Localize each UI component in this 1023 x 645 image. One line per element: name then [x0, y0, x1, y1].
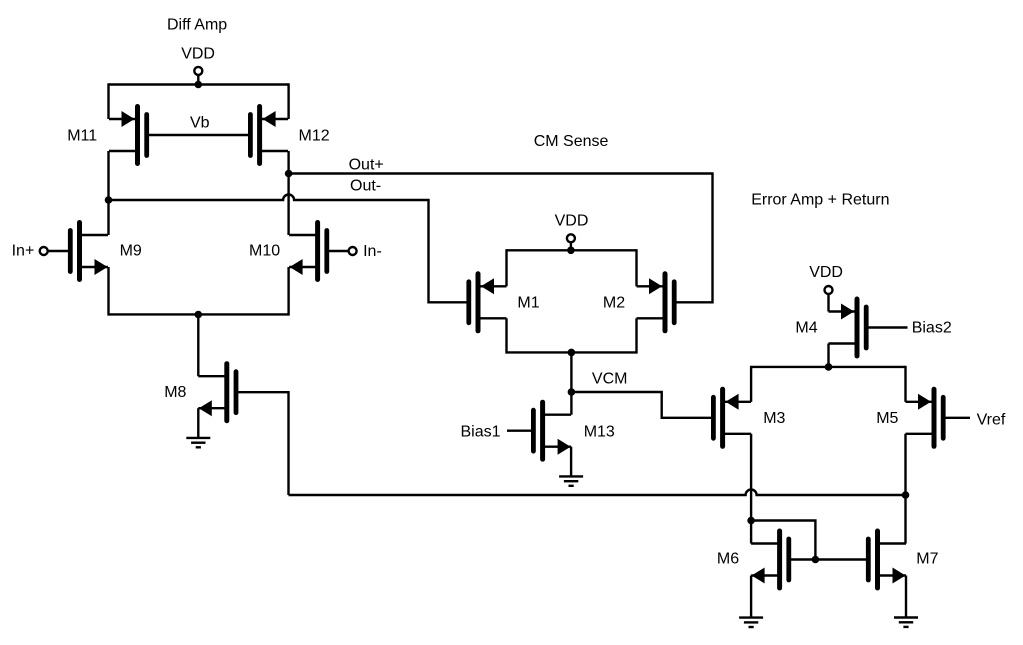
- wire bottom rail to M13 drain: [570, 352, 572, 414]
- ground M7 source: [894, 618, 918, 627]
- wire M6-M7 gate line: [789, 558, 869, 560]
- wire CM sense bottom rail: [507, 351, 637, 353]
- svg-text:M9: M9: [120, 242, 142, 259]
- svg-text:Vref: Vref: [977, 412, 1006, 429]
- svg-text:M1: M1: [517, 295, 539, 312]
- wire VDD to M4 source: [827, 294, 829, 312]
- svg-text:M5: M5: [876, 410, 898, 427]
- wire M6 drain down: [750, 519, 752, 543]
- wire VDD rail CM sense: [507, 249, 637, 251]
- junction CM VDD rail: [567, 247, 575, 255]
- svg-text:M8: M8: [164, 384, 186, 401]
- junction Out+ node: [285, 170, 293, 178]
- svg-text:M11: M11: [67, 127, 97, 144]
- PMOS transistor M4: [829, 299, 867, 356]
- node Out- wire vertical to M1 gate: [429, 199, 469, 302]
- ground M13 source: [559, 476, 583, 485]
- wire In- to M10 gate: [327, 250, 349, 252]
- wire M4 drain down: [827, 344, 829, 367]
- svg-text:M3: M3: [763, 410, 785, 427]
- NMOS transistor M13: [533, 402, 571, 459]
- PMOS transistor M11: [109, 107, 147, 164]
- junction VDD rail: [195, 81, 203, 89]
- wire VDD stub diff amp: [197, 75, 199, 85]
- wire M11 drain to M9 drain: [107, 151, 109, 235]
- PMOS transistor M12: [250, 107, 288, 164]
- wire M8 source down: [197, 408, 199, 438]
- wire M4 gate to Bias2: [866, 326, 907, 328]
- junction M3-M6 drain node: [747, 517, 755, 525]
- svg-text:M13: M13: [584, 423, 615, 440]
- wire VDD stub CM sense: [570, 242, 572, 250]
- junction gate line tap: [812, 556, 820, 564]
- svg-text:Bias1: Bias1: [461, 423, 501, 440]
- wire Bias1 to M13 gate: [507, 430, 534, 432]
- wire VCM to M3 gate: [571, 392, 713, 418]
- svg-text:VDD: VDD: [181, 45, 215, 62]
- wire VDD rail to M12 source: [287, 83, 289, 119]
- junction M4 drain node: [825, 363, 833, 371]
- PMOS transistor M5: [906, 389, 944, 446]
- PMOS transistor M3: [713, 389, 751, 446]
- node Out+ wire: [289, 174, 713, 303]
- wire M3 drain down through hop: [750, 434, 752, 521]
- svg-text:Bias2: Bias2: [912, 320, 952, 337]
- wire rail to M2 source: [635, 249, 637, 286]
- PMOS transistor M1: [469, 274, 507, 331]
- wire M13 source down: [570, 447, 572, 477]
- svg-text:M7: M7: [916, 551, 938, 568]
- wire In+ to M9 gate: [47, 250, 70, 252]
- junction feedback line right end: [902, 491, 910, 499]
- NMOS transistor M8: [198, 364, 236, 421]
- svg-text:Error Amp + Return: Error Amp + Return: [751, 191, 889, 208]
- svg-text:VDD: VDD: [809, 264, 843, 281]
- terminal VDD diff amp: [194, 67, 202, 75]
- wire M1 drain down: [505, 318, 507, 353]
- svg-text:Diff Amp: Diff Amp: [167, 17, 227, 34]
- svg-text:M10: M10: [249, 242, 280, 259]
- junction CM bottom rail: [568, 349, 576, 357]
- NMOS transistor M9: [70, 223, 108, 280]
- wire M6 source down: [750, 576, 752, 618]
- wire M2 drain down: [635, 318, 637, 353]
- svg-text:M12: M12: [299, 127, 330, 144]
- wire tail node to M8 drain: [197, 315, 199, 377]
- wire M12 drain to M10 drain: [287, 151, 289, 235]
- junction tail node: [195, 311, 203, 319]
- feedback return line with hop: [289, 490, 906, 496]
- terminal In-: [349, 247, 357, 255]
- ground M6 source: [739, 618, 763, 627]
- svg-text:M2: M2: [603, 295, 625, 312]
- wire rail to M5 source: [904, 366, 906, 402]
- svg-text:CM Sense: CM Sense: [534, 133, 609, 150]
- wire M3/M5 source rail: [751, 366, 905, 368]
- svg-text:Out+: Out+: [349, 156, 384, 173]
- wire M6 drain node to gates: [751, 521, 815, 560]
- svg-text:VCM: VCM: [592, 370, 628, 387]
- wire rail to M3 source: [750, 366, 752, 402]
- wire M7 source down: [905, 576, 907, 618]
- svg-text:In-: In-: [363, 243, 382, 260]
- svg-text:In+: In+: [12, 242, 35, 259]
- NMOS transistor M6: [751, 531, 789, 588]
- NMOS transistor M10: [289, 223, 327, 280]
- svg-text:Vb: Vb: [190, 115, 210, 132]
- wire VDD rail diff amp: [109, 83, 289, 85]
- NMOS transistor M7: [868, 531, 906, 588]
- terminal VDD CM sense: [567, 234, 575, 242]
- junction Out- node: [105, 196, 113, 204]
- wire M5 gate to Vref: [943, 417, 970, 419]
- terminal VDD error amp: [825, 286, 833, 294]
- svg-text:VDD: VDD: [555, 213, 589, 230]
- node Out- wire with hop: [109, 195, 429, 201]
- ground M8 source: [186, 438, 210, 447]
- wire Vb gate line M11-M12: [147, 134, 251, 136]
- wire tail rail M9-M10 sources: [109, 313, 289, 315]
- wire M8 gate to feedback line: [236, 392, 289, 495]
- terminal In+: [40, 247, 48, 255]
- wire rail to M1 source: [505, 249, 507, 286]
- svg-text:M4: M4: [795, 320, 817, 337]
- wire M5 drain down to M7 drain: [904, 434, 906, 544]
- svg-text:Out-: Out-: [350, 178, 381, 195]
- svg-text:M6: M6: [717, 551, 739, 568]
- junction VCM node: [568, 388, 576, 396]
- PMOS transistor M2: [637, 274, 675, 331]
- wire VDD rail to M11 source: [107, 83, 109, 119]
- wire M9 source down: [107, 267, 109, 316]
- wire M10 source down: [287, 267, 289, 316]
